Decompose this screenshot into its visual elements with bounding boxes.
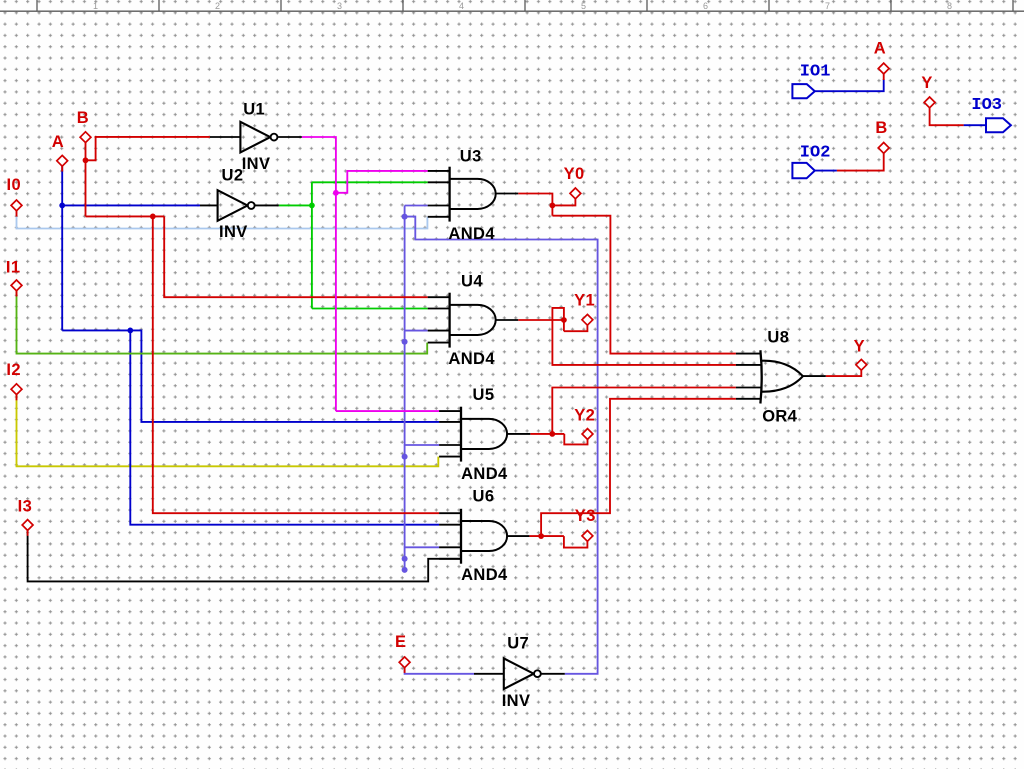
wire I0 to U3 pin4: [17, 211, 428, 229]
AND gate U3: [450, 167, 496, 222]
terminal B: [80, 132, 91, 143]
svg-text:A: A: [874, 40, 886, 58]
AND gate U4: [450, 293, 496, 348]
svg-text:B: B: [77, 109, 89, 127]
svg-text:IO3: IO3: [971, 96, 1002, 115]
stem terminal E: [404, 668, 406, 673]
svg-text:Y: Y: [854, 337, 865, 355]
wire Y0 from U3 output: [518, 194, 552, 216]
svg-text:INV: INV: [242, 155, 271, 173]
svg-text:U4: U4: [461, 272, 483, 290]
wire Y3 from U6 output: [529, 535, 564, 537]
svg-text:1: 1: [93, 1, 98, 11]
junction A at (62,205): [59, 203, 65, 209]
junction Y1 at (564,320): [561, 317, 567, 323]
junction A at (130,330): [127, 328, 133, 334]
terminal B (IO2): [878, 143, 889, 154]
pin stubs U3: [428, 171, 450, 217]
wire IO2 stub: [815, 170, 837, 172]
wire E-bar to U5 pin3: [405, 444, 440, 446]
wire E-bar to U4 pin3: [405, 330, 428, 332]
AND gate U5: [461, 407, 507, 462]
terminal Y2: [582, 429, 593, 440]
wire Y1 to U8 pin2: [552, 320, 736, 365]
terminal Y3: [582, 531, 593, 542]
junction Y2 at (552,434): [549, 431, 555, 437]
svg-text:IO2: IO2: [800, 143, 831, 162]
terminal Y: [856, 359, 867, 370]
terminal Y1: [582, 314, 593, 325]
wire A to U2 input: [62, 204, 200, 206]
wire IO1 to terminal A: [815, 79, 884, 91]
wire Y1 from U4 output: [518, 319, 564, 321]
wire Y2 to U8 pin3: [552, 388, 736, 434]
wire Y0 to U8 pin1: [552, 216, 736, 354]
terminal Y (IO3): [924, 97, 935, 108]
svg-text:AND4: AND4: [461, 465, 508, 483]
svg-text:2: 2: [215, 1, 220, 11]
svg-text:AND4: AND4: [448, 225, 495, 243]
terminal I2: [11, 384, 22, 395]
wire E-bar from U7 output: [405, 217, 598, 674]
wire B horizontal to branch: [86, 215, 165, 217]
svg-text:E: E: [395, 633, 406, 651]
svg-text:I3: I3: [18, 497, 33, 515]
junction E-bar at (405,559): [402, 556, 408, 562]
svg-text:Y3: Y3: [575, 507, 596, 525]
svg-text:I2: I2: [6, 361, 21, 379]
wire Y terminal to IO3: [930, 108, 964, 125]
ruler: [0, 0, 1024, 11]
wire B-bar to U5 pin1: [336, 410, 439, 412]
pin stubs U6: [439, 513, 461, 559]
OR gate U8: [760, 350, 803, 403]
wire Y1 loop at U4 output: [552, 308, 564, 331]
wire Y0 to terminal Y0: [552, 199, 575, 206]
IO connector IO2: [792, 163, 814, 178]
wire IO3 stub: [964, 124, 986, 126]
wire B-bar to U3 pin1: [336, 171, 428, 193]
terminal I0: [11, 200, 22, 211]
junction Y0 at (552,205): [550, 203, 556, 209]
wire Y2 to terminal Y2: [564, 434, 587, 445]
stem terminal I2: [16, 394, 18, 400]
wire A stem down from terminal A: [61, 166, 63, 330]
wire B to U1 input: [86, 137, 210, 160]
svg-text:I1: I1: [6, 258, 21, 276]
wire A-bar from U2 output: [279, 204, 312, 206]
svg-text:B: B: [875, 119, 887, 137]
svg-text:Y: Y: [921, 74, 932, 92]
svg-text:U7: U7: [507, 634, 529, 652]
wire B down to U4 pin1: [164, 216, 428, 297]
wire E terminal to U7 input: [405, 668, 474, 674]
svg-text:IO1: IO1: [800, 63, 831, 82]
stem terminal I1: [16, 291, 18, 297]
wire Y1 to terminal Y1: [564, 325, 588, 331]
svg-text:OR4: OR4: [762, 408, 798, 426]
svg-text:5: 5: [581, 1, 586, 11]
pin stubs U4: [428, 297, 450, 342]
svg-text:U5: U5: [473, 386, 495, 404]
svg-text:U8: U8: [767, 329, 789, 347]
terminal I1: [11, 280, 22, 291]
wire E-bar to U3 pin3: [405, 205, 428, 207]
pin stubs U1: [210, 136, 241, 138]
terminal I3: [22, 520, 33, 531]
wire I3 to U6 pin4: [28, 531, 461, 582]
wire I1 to U4 pin4: [17, 291, 428, 354]
wire B stem down from terminal B to junction: [85, 143, 87, 217]
junction A-bar at (312,205): [309, 203, 315, 209]
wire A-bar to U3 pin2: [312, 181, 428, 183]
junction B-bar at (336,193): [333, 190, 339, 196]
wire Y3 to terminal Y3: [564, 536, 588, 548]
terminal A: [57, 155, 68, 166]
wire A-bar vertical: [311, 182, 313, 308]
svg-text:U6: U6: [473, 487, 495, 505]
pin stubs U5: [439, 411, 461, 457]
svg-text:A: A: [52, 133, 64, 151]
stem terminal I3: [27, 530, 29, 536]
svg-text:8: 8: [947, 1, 952, 11]
wire I2 to U5 pin4: [17, 395, 439, 467]
svg-text:4: 4: [459, 1, 464, 11]
wire E-bar long vertical: [404, 206, 406, 570]
inverter U2: [218, 190, 255, 221]
svg-text:3: 3: [337, 1, 342, 11]
wire B-bar from U1 output down: [302, 137, 336, 411]
inverter U1: [240, 122, 277, 153]
IO connector IO1: [792, 84, 814, 98]
svg-text:U1: U1: [243, 100, 265, 118]
svg-text:Y1: Y1: [574, 291, 595, 309]
svg-text:INV: INV: [219, 223, 248, 241]
wire stem terminal A (IO1): [883, 74, 885, 80]
wire A to U6 pin2: [130, 330, 439, 524]
svg-text:U3: U3: [460, 147, 482, 165]
stem terminal A: [61, 166, 63, 172]
junction Y3 at (541,536): [538, 533, 544, 539]
junction E-bar at (405,457): [402, 454, 408, 460]
IO connector IO3: [986, 118, 1011, 132]
terminal Y0: [570, 188, 581, 199]
wire A to U5 pin2: [62, 330, 439, 422]
pin stubs U7: [474, 673, 504, 675]
svg-text:Y2: Y2: [574, 407, 595, 425]
svg-text:AND4: AND4: [461, 566, 508, 584]
inverter U7: [504, 658, 541, 689]
junction B at (85,160): [83, 157, 89, 163]
junction E-bar at (405,570): [402, 567, 408, 573]
svg-text:6: 6: [703, 1, 708, 11]
svg-text:AND4: AND4: [448, 350, 495, 368]
pin stubs U8: [736, 354, 762, 399]
wire E-bar to U6 pin3: [405, 546, 440, 548]
svg-text:7: 7: [825, 1, 830, 11]
junction B at (153,216): [150, 214, 156, 220]
junction E-bar at (405,342): [402, 339, 408, 345]
wire Y2 from U5 output: [530, 433, 564, 435]
stem terminal I0: [16, 211, 18, 217]
wire B to terminal B (IO2): [837, 153, 884, 170]
terminal A (IO1): [878, 63, 889, 74]
wire Y3 to U8 pin4: [541, 399, 736, 536]
svg-text:I0: I0: [7, 176, 22, 194]
pin stubs U2: [200, 204, 218, 206]
wire B down to U6 pin1: [153, 216, 439, 513]
wire A-bar to U4 pin2: [312, 308, 428, 310]
AND gate U6: [461, 509, 507, 564]
junction E-bar at (405,217): [402, 214, 408, 220]
svg-text:INV: INV: [502, 692, 531, 710]
svg-text:U2: U2: [222, 167, 244, 185]
terminal E: [399, 657, 410, 668]
svg-text:Y0: Y0: [564, 165, 585, 183]
wire Y from U8 output to terminal Y: [826, 370, 862, 376]
